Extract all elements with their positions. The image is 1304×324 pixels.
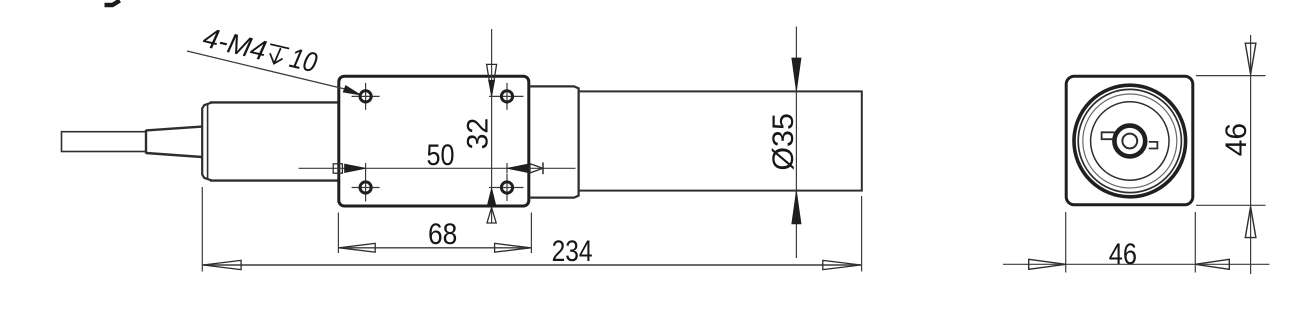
mounting block (flange body): [339, 76, 529, 206]
dim line 68: [338, 247, 531, 249]
small open arrow near collar: [530, 164, 543, 173]
svg-text:50: 50: [427, 139, 455, 172]
dim 68 left arrow: [339, 243, 375, 252]
dim line 32: [491, 29, 493, 224]
connector right key tab: [1149, 142, 1158, 149]
dim 234 left arrow: [203, 260, 241, 269]
dim 32 top arrow outline (pointing down): [487, 64, 497, 95]
svg-text:46: 46: [1109, 238, 1137, 271]
cable: [62, 132, 147, 152]
dim 32 top arrow tip: [489, 80, 495, 95]
extension line 68 right: [530, 213, 532, 254]
svg-text:46: 46: [1220, 123, 1253, 157]
svg-text:68: 68: [428, 218, 457, 251]
dia35 top arrow (pointing down): [792, 58, 801, 91]
open arrow at block bottom edge: [487, 208, 496, 224]
connector center hole: [1122, 134, 1137, 149]
ring 3 (faint): [1083, 94, 1177, 188]
extension line 234 left: [201, 187, 203, 272]
extension line 46h left: [1065, 212, 1067, 273]
extension line 234 right: [861, 196, 863, 272]
dim 50 left arrow (outside, pointing right): [345, 164, 366, 172]
collar between flange and barrel: [529, 86, 579, 197]
46v bottom arrow (pointing up): [1245, 207, 1256, 238]
extension line 68 left: [337, 213, 339, 254]
dim 50 right arrow (outside, pointing left): [507, 164, 528, 172]
46h right arrow (pointing left): [1195, 259, 1229, 269]
hole bottom-left (M4): [352, 187, 380, 189]
small open box at block left edge (50 dim): [333, 164, 342, 173]
dim 234 right arrow: [823, 260, 861, 269]
46v top arrow (pointing down): [1245, 43, 1256, 74]
ring 2: [1078, 89, 1181, 192]
tick at open arrow: [542, 162, 544, 174]
svg-text:Ø35: Ø35: [767, 113, 800, 171]
extension at right hole column: [506, 163, 508, 174]
svg-text:32: 32: [462, 118, 495, 150]
leader arrowhead: [343, 86, 360, 95]
dim line 50: [299, 167, 576, 169]
extension at left hole column: [365, 163, 367, 174]
ring 4: [1091, 102, 1169, 180]
extension line bottom (end view): [1196, 204, 1266, 206]
hole top-right (M4): [489, 95, 524, 97]
dim 32 bottom arrow (pointing up): [487, 188, 496, 206]
dim line 234: [202, 264, 861, 266]
rear end cap: [202, 102, 212, 180]
hole bottom-right (M4): [489, 187, 524, 189]
stray text fragment (cropped glyph) top-left: [105, 1, 120, 6]
thread callout text 4-M4 depth 10: [200, 22, 320, 79]
cable boot / strain relief: [146, 127, 202, 157]
leader line for thread callout: [187, 51, 348, 90]
dia35 bottom arrow (pointing up): [792, 191, 801, 224]
outer ring (thick): [1074, 85, 1186, 197]
dim line dia35: [795, 27, 797, 259]
extension line 46h right: [1194, 212, 1196, 273]
connector left key tab: [1102, 132, 1115, 139]
barrel cylinder (dia 35): [579, 91, 862, 190]
svg-text:234: 234: [552, 235, 593, 268]
dim line 46 vertical: [1250, 35, 1252, 274]
connector boss ring: [1114, 126, 1145, 157]
dim 68 right arrow: [495, 243, 531, 252]
hole top-left (M4): [352, 95, 380, 97]
extension line top (end view): [1196, 75, 1266, 77]
end view square flange 46x46: [1066, 76, 1193, 205]
dim line 46 horizontal: [1003, 263, 1270, 265]
46h left arrow (pointing right): [1029, 259, 1066, 269]
